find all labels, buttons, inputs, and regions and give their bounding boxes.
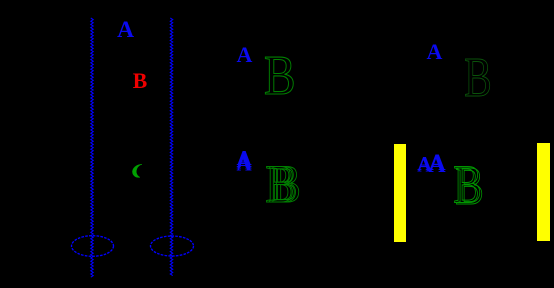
label AA (blue, right column row 2) <box>417 150 445 178</box>
wire: dashed zigzag vertical axis line 1 <box>91 18 93 277</box>
svg-text:B: B <box>455 155 484 216</box>
yellow barrier bar left <box>394 144 406 242</box>
svg-text:B: B <box>133 69 147 93</box>
lens ellipse 2 (dashed) <box>151 236 194 256</box>
letter B outline smeared (green, middle column row 2) <box>265 154 301 214</box>
label C (green crescent) <box>132 164 142 177</box>
wire: dashed zigzag vertical axis line 2 <box>170 18 172 276</box>
svg-text:B: B <box>264 45 296 106</box>
svg-text:A: A <box>237 151 253 175</box>
lens ellipse 1 (dashed) <box>72 236 114 257</box>
label A smeared (blue, middle column row 2) <box>237 146 253 175</box>
yellow barrier bar right <box>537 143 550 241</box>
svg-text:A: A <box>429 152 446 178</box>
svg-text:B: B <box>464 46 491 109</box>
svg-text:B: B <box>272 154 301 214</box>
svg-text:A: A <box>427 39 443 64</box>
letter B double outline (green, right column row 2) <box>453 153 484 216</box>
svg-text:A: A <box>237 42 253 67</box>
svg-text:A: A <box>117 17 134 43</box>
letter B outline (dark green, right column row 1) <box>464 46 491 109</box>
letter B outline (green, middle column row 1) <box>264 45 296 106</box>
